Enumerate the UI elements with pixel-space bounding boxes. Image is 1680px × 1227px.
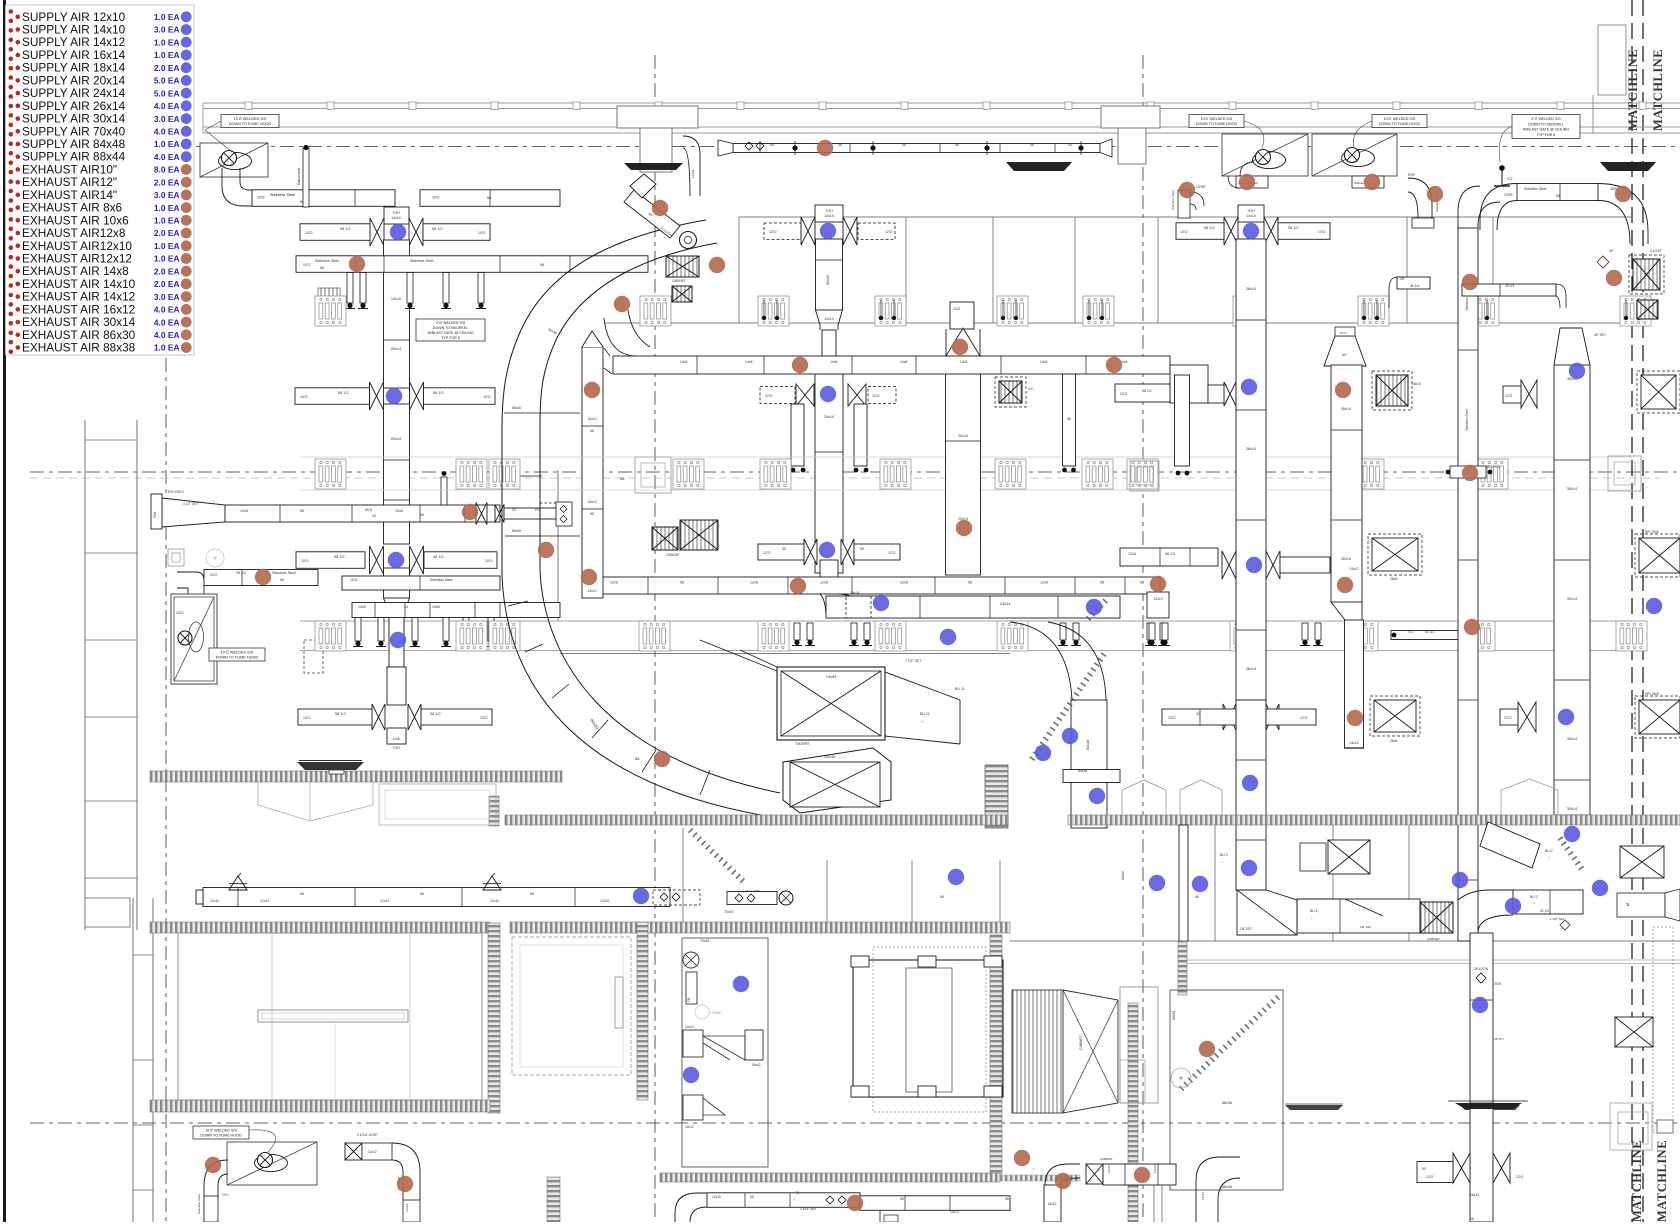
stub 84x48 bbox=[1063, 770, 1120, 783]
bottom center elbow duct bbox=[675, 1193, 707, 1222]
svg-text:Stainless Steel: Stainless Steel bbox=[1465, 409, 1469, 431]
svg-text:12'∅: 12'∅ bbox=[885, 230, 894, 234]
svg-text:1.0 EA: 1.0 EA bbox=[154, 241, 180, 251]
svg-text:88x38: 88x38 bbox=[1172, 1011, 1176, 1020]
svg-text:14x8: 14x8 bbox=[745, 360, 752, 364]
svg-text:50: 50 bbox=[1422, 1167, 1426, 1171]
fume hood box R1 bbox=[1222, 134, 1308, 176]
svg-text:20x14: 20x14 bbox=[958, 434, 968, 438]
svg-text:1.0 EA: 1.0 EA bbox=[154, 343, 180, 353]
svg-text:Stainless Steel: Stainless Steel bbox=[1524, 187, 1547, 191]
dashed box near BU bbox=[540, 503, 556, 519]
svg-text:4 1/2" SET: 4 1/2" SET bbox=[183, 502, 198, 506]
column2 body3 below run bbox=[815, 374, 843, 573]
svg-text:DOWN TO SNORKEL: DOWN TO SNORKEL bbox=[433, 326, 468, 330]
column1 stub right y232 bbox=[423, 224, 490, 241]
column2 side bowties y395 bbox=[796, 384, 805, 406]
svg-text:10'∅ WELDED S/S: 10'∅ WELDED S/S bbox=[205, 1128, 237, 1132]
column4 bowtie y717 bbox=[1223, 704, 1230, 730]
elbow right of room D bbox=[1196, 1157, 1240, 1222]
svg-text:2.0 EA: 2.0 EA bbox=[154, 177, 180, 187]
svg-text:3 1/2x2 1/2'MT: 3 1/2x2 1/2'MT bbox=[357, 1133, 378, 1137]
column markers at gridline bbox=[635, 457, 671, 493]
svg-text:Galvanized: Galvanized bbox=[297, 168, 301, 185]
svg-text:70x40: 70x40 bbox=[724, 910, 733, 914]
svg-text:58 1/2: 58 1/2 bbox=[1288, 226, 1299, 230]
svg-text:↑: ↑ bbox=[1032, 1166, 1034, 1171]
right xbox y1017 bbox=[1615, 1017, 1653, 1047]
dashed boxes on run y607 bbox=[846, 596, 871, 618]
run y897 long bbox=[203, 888, 670, 907]
left small room walls x1120 bbox=[1120, 987, 1158, 1103]
svg-text:Stainless Steel: Stainless Steel bbox=[270, 193, 295, 197]
run y548 right bbox=[1120, 548, 1218, 566]
label snorkel R3 bbox=[1512, 115, 1580, 139]
stub into col4 bbox=[1208, 385, 1226, 403]
elbow from fan bbox=[222, 168, 252, 206]
svg-text:4'∅: 4'∅ bbox=[1408, 630, 1413, 634]
svg-text:26 1/2'DN: 26 1/2'DN bbox=[1474, 967, 1489, 971]
run y610 bbox=[352, 603, 560, 618]
svg-text:35 1/4: 35 1/4 bbox=[1505, 284, 1514, 288]
svg-text:14x8: 14x8 bbox=[680, 360, 687, 364]
exhaust air count dots (brown) bbox=[349, 256, 365, 272]
svg-text:14x10: 14x10 bbox=[587, 417, 596, 421]
snorkel label box mid-left bbox=[416, 319, 485, 341]
svg-text:←: ← bbox=[1310, 915, 1314, 920]
col6 bowties y1168 bbox=[1453, 1153, 1462, 1183]
svg-text:MATCHLINE: MATCHLINE bbox=[1626, 49, 1640, 131]
column2 top TOH bbox=[815, 205, 843, 222]
left riser w/ elbow bbox=[1178, 190, 1190, 218]
svg-text:56: 56 bbox=[420, 513, 424, 517]
zone verticals upper bbox=[738, 217, 740, 323]
svg-text:Stainless Steel: Stainless Steel bbox=[315, 259, 339, 263]
small vert duct 1158 bbox=[1147, 592, 1169, 618]
svg-text:4.0 EA: 4.0 EA bbox=[154, 127, 180, 137]
svg-text:58 1/2: 58 1/2 bbox=[338, 391, 349, 395]
bench room A bbox=[258, 1010, 408, 1022]
hood bar 1 bbox=[624, 163, 683, 170]
svg-text:1.0 EA: 1.0 EA bbox=[154, 37, 180, 47]
column2 dashed stubs bbox=[764, 223, 801, 240]
legend box bbox=[6, 5, 195, 355]
svg-text:DOWN TO FUME HOOD: DOWN TO FUME HOOD bbox=[229, 122, 272, 126]
svg-text:↑: ↑ bbox=[793, 1197, 795, 1202]
svg-text:84x48: 84x48 bbox=[1086, 740, 1090, 750]
svg-text:CABNMT: CABNMT bbox=[1100, 1157, 1113, 1161]
left connector col (x~592) bbox=[582, 347, 603, 598]
supply air count dots (blue) bbox=[390, 224, 406, 240]
svg-text:58 1/2: 58 1/2 bbox=[1165, 552, 1175, 556]
column1 transition bbox=[384, 598, 410, 640]
svg-text:20x14: 20x14 bbox=[391, 437, 401, 441]
svg-text:CABINET: CABINET bbox=[1427, 937, 1440, 941]
svg-text:12'∅: 12'∅ bbox=[1505, 394, 1512, 398]
coil unit bbox=[1012, 990, 1063, 1113]
small flex near curve top bbox=[1088, 600, 1106, 619]
svg-text:42 1/2: 42 1/2 bbox=[1425, 630, 1434, 634]
zone vert x558 bbox=[557, 470, 559, 621]
svg-text:60 ↑: 60 ↑ bbox=[1342, 353, 1349, 357]
svg-text:4.0 EA: 4.0 EA bbox=[154, 305, 180, 315]
bottom duct right of col4 bbox=[1297, 899, 1420, 933]
svg-text:12x10: 12x10 bbox=[490, 899, 499, 903]
grille row y622 bbox=[315, 621, 346, 651]
fume hood top-left bbox=[200, 143, 268, 177]
svg-text:14x10: 14x10 bbox=[1246, 214, 1256, 218]
dropper x444 bbox=[441, 477, 447, 505]
svg-text:26x8: 26x8 bbox=[1390, 577, 1397, 581]
small circle bbox=[206, 549, 224, 567]
svg-text:16x12: 16x12 bbox=[1153, 1164, 1157, 1173]
run y585 long bbox=[585, 577, 1160, 594]
svg-text:58: 58 bbox=[320, 266, 324, 270]
big right elbow right bbox=[1598, 184, 1648, 245]
column1 body4 bbox=[387, 667, 406, 705]
svg-text:86x30: 86x30 bbox=[826, 275, 830, 285]
run y513 bbox=[225, 505, 500, 522]
page border left bbox=[3, 0, 6, 1222]
svg-text:10'∅: 10'∅ bbox=[350, 578, 359, 582]
svg-text:70x40: 70x40 bbox=[700, 939, 709, 943]
big right elbow left bbox=[1480, 184, 1517, 231]
svg-text:10'∅: 10'∅ bbox=[257, 196, 266, 200]
svg-text:4"∅ WELDED S/S: 4"∅ WELDED S/S bbox=[1531, 117, 1561, 121]
svg-text:45 1/2'DN: 45 1/2'DN bbox=[1486, 465, 1501, 469]
thin duct y148 bbox=[733, 144, 1100, 153]
droppers col4 bbox=[1149, 623, 1155, 640]
svg-text:12'∅: 12'∅ bbox=[888, 551, 897, 555]
svg-text:14'∅: 14'∅ bbox=[953, 307, 960, 311]
flex bottom-left room bbox=[690, 830, 746, 884]
equipment big pad bbox=[873, 947, 986, 1112]
svg-text:58: 58 bbox=[300, 892, 304, 896]
BU box left bbox=[556, 502, 572, 526]
zone line y217 bbox=[739, 216, 1632, 218]
svg-text:14x8: 14x8 bbox=[960, 360, 967, 364]
svg-text:24: 24 bbox=[372, 514, 376, 518]
svg-text:58: 58 bbox=[635, 756, 640, 761]
zone line y323 bbox=[604, 322, 1632, 324]
svg-text:Stainless Steel: Stainless Steel bbox=[197, 1194, 201, 1214]
svg-text:24: 24 bbox=[404, 605, 408, 609]
svg-text:12x10: 12x10 bbox=[712, 1195, 721, 1199]
svg-text:10'∅: 10'∅ bbox=[222, 1193, 229, 1197]
svg-text:DOWN TO FUME HOOD: DOWN TO FUME HOOD bbox=[216, 656, 259, 660]
svg-text:45°: 45° bbox=[1400, 277, 1406, 281]
column4 bowtie y231 bbox=[1224, 217, 1231, 245]
column1 stub left y232 bbox=[300, 224, 370, 241]
svg-text:48: 48 bbox=[1030, 143, 1034, 147]
svg-text:54: 54 bbox=[1068, 143, 1072, 147]
svg-text:50x42: 50x42 bbox=[752, 1063, 761, 1067]
svg-text:Stainless Steel: Stainless Steel bbox=[410, 259, 434, 263]
svg-text:14x12: 14x12 bbox=[405, 1203, 409, 1212]
column1 bowtie y396 bbox=[370, 382, 377, 410]
svg-text:58: 58 bbox=[280, 578, 284, 582]
svg-text:10'∅: 10'∅ bbox=[485, 559, 494, 563]
svg-text:1.0 EA: 1.0 EA bbox=[154, 50, 180, 60]
room D lower walls bbox=[1153, 1185, 1155, 1222]
svg-text:10'∅: 10'∅ bbox=[480, 716, 489, 720]
svg-text:→: → bbox=[920, 718, 925, 723]
column6 from top elbow bbox=[1458, 186, 1500, 230]
svg-text:58: 58 bbox=[1556, 194, 1560, 198]
column5 body bbox=[1331, 365, 1362, 602]
svg-text:68: 68 bbox=[530, 892, 534, 896]
svg-text:DOWN TO FUME HOOD: DOWN TO FUME HOOD bbox=[1379, 122, 1421, 126]
hatch boxes mid-left bbox=[318, 288, 340, 324]
svg-text:14x10: 14x10 bbox=[391, 297, 401, 301]
column1 body bbox=[384, 240, 410, 388]
svg-text:45°: 45° bbox=[1609, 249, 1615, 253]
svg-text:3.0 EA: 3.0 EA bbox=[154, 25, 180, 35]
svg-text:MATCHLINE: MATCHLINE bbox=[1630, 1140, 1644, 1222]
elbow center run bbox=[820, 594, 862, 618]
galvanized riser bbox=[303, 148, 309, 207]
svg-text:12x10: 12x10 bbox=[600, 899, 609, 903]
column2 bowtie y552 bbox=[804, 539, 811, 565]
svg-text:86x30: 86x30 bbox=[512, 529, 521, 533]
connector y635 bbox=[1391, 631, 1458, 640]
T column 1 bbox=[617, 106, 698, 128]
svg-text:68: 68 bbox=[1195, 895, 1199, 899]
svg-text:10'∅: 10'∅ bbox=[305, 231, 314, 235]
svg-text:30x14: 30x14 bbox=[1341, 407, 1351, 411]
svg-text:4.0 EA: 4.0 EA bbox=[154, 330, 180, 340]
svg-text:10'∅: 10'∅ bbox=[483, 395, 492, 399]
column2 neck bbox=[820, 560, 838, 578]
svg-text:1.0 EA: 1.0 EA bbox=[154, 12, 180, 22]
svg-text:10'∅: 10'∅ bbox=[1168, 716, 1177, 720]
bottom col4 funnel bbox=[1237, 890, 1297, 935]
svg-text:10'∅: 10'∅ bbox=[300, 395, 309, 399]
gridline vertical A bbox=[165, 358, 167, 1222]
xbox right of column3 bbox=[999, 381, 1022, 403]
gridline vertical D matchline bbox=[1631, 0, 1633, 1222]
svg-text:10'∅: 10'∅ bbox=[303, 263, 312, 267]
svg-text:10x8: 10x8 bbox=[395, 509, 403, 513]
zone double line y960 bbox=[1187, 959, 1680, 961]
column2 body bbox=[816, 239, 843, 310]
svg-text:↑: ↑ bbox=[212, 499, 215, 505]
right xbox y375 bbox=[1641, 375, 1676, 409]
svg-text:30x14: 30x14 bbox=[1567, 737, 1577, 741]
svg-text:14x10: 14x10 bbox=[824, 214, 834, 218]
cabinet boxes B bbox=[672, 286, 692, 302]
column7 transition top bbox=[1554, 328, 1590, 365]
svg-text:84x84: 84x84 bbox=[1121, 871, 1125, 880]
svg-text:8.0 EA: 8.0 EA bbox=[154, 165, 180, 175]
run y365 long bbox=[613, 356, 1170, 374]
svg-text:52 1/4: 52 1/4 bbox=[1540, 909, 1549, 913]
run y264 bbox=[296, 256, 648, 272]
zone verticals below band bbox=[1214, 825, 1216, 941]
svg-text:24x14: 24x14 bbox=[824, 415, 834, 419]
small right glyph y1120 bbox=[1657, 1120, 1673, 1133]
wall vert x494 bbox=[488, 923, 500, 1113]
svg-text:SPL 26x8: SPL 26x8 bbox=[1645, 530, 1659, 534]
svg-text:MATCHLINE: MATCHLINE bbox=[1651, 49, 1665, 131]
run jog x1170 bbox=[1170, 365, 1208, 403]
svg-text:Stainless Steel: Stainless Steel bbox=[430, 578, 453, 582]
svg-text:TOH: TOH bbox=[392, 746, 400, 750]
svg-text:10'∅: 10'∅ bbox=[210, 573, 219, 577]
svg-text:+70x40: +70x40 bbox=[710, 1011, 721, 1015]
svg-text:20x14: 20x14 bbox=[391, 347, 401, 351]
svg-text:12x8: 12x8 bbox=[1040, 581, 1048, 585]
left wall lower bbox=[132, 898, 134, 1222]
svg-text:1.0 EA: 1.0 EA bbox=[154, 254, 180, 264]
svg-text:102-1/2'MT: 102-1/2'MT bbox=[745, 889, 760, 893]
svg-text:14x8: 14x8 bbox=[900, 360, 907, 364]
droppers under run y264 bbox=[347, 273, 353, 304]
svg-text:W/BLAST GATE @ CEILING: W/BLAST GATE @ CEILING bbox=[1523, 128, 1569, 132]
xbox pair right of column5 bbox=[1372, 538, 1418, 571]
gridline vertical C bbox=[1142, 55, 1144, 1222]
top wall band bbox=[203, 102, 1680, 104]
svg-text:1.0 EA: 1.0 EA bbox=[154, 139, 180, 149]
svg-text:58: 58 bbox=[300, 509, 304, 513]
svg-text:2.0 EA: 2.0 EA bbox=[154, 266, 180, 276]
svg-text:3.0 EA: 3.0 EA bbox=[154, 114, 180, 124]
bottom label box bbox=[193, 1126, 249, 1139]
hood bar 2 bbox=[1006, 162, 1072, 171]
right dotted tall box bbox=[1653, 927, 1673, 1133]
svg-text:10'∅: 10'∅ bbox=[1120, 392, 1127, 396]
gridline horizontal 3 bbox=[30, 1122, 1680, 1124]
svg-text:1.0 EA: 1.0 EA bbox=[154, 216, 180, 226]
svg-text:14x12: 14x12 bbox=[1048, 1202, 1057, 1206]
svg-text:Stainless Steel: Stainless Steel bbox=[1171, 190, 1175, 210]
column1 bowtie y232 bbox=[370, 218, 377, 246]
svg-text:10x8: 10x8 bbox=[432, 605, 440, 609]
roof outline 1 bbox=[1122, 780, 1166, 815]
column3 chimney bbox=[950, 302, 974, 329]
svg-text:12'∅: 12'∅ bbox=[1426, 1175, 1433, 1179]
soffit band lines bbox=[300, 456, 1632, 458]
black dot pairs row296 bbox=[762, 316, 766, 320]
svg-text:58: 58 bbox=[680, 581, 684, 585]
duct column1 top TOH bbox=[384, 207, 409, 224]
svg-text:4"∅ WELDED S/S: 4"∅ WELDED S/S bbox=[436, 321, 466, 325]
slanted BU2 duct bbox=[1480, 822, 1540, 868]
svg-text:TYP FOR 8: TYP FOR 8 bbox=[441, 336, 460, 340]
wall band y922 left bbox=[150, 922, 490, 933]
svg-text:2'DN: 2'DN bbox=[1494, 982, 1502, 986]
svg-text:14x10: 14x10 bbox=[587, 500, 596, 504]
column5 body2 bbox=[1345, 620, 1364, 748]
svg-text:12'∅: 12'∅ bbox=[765, 394, 774, 398]
svg-text:58 1/2: 58 1/2 bbox=[340, 227, 351, 231]
svg-text:12'∅: 12'∅ bbox=[1504, 716, 1513, 720]
svg-text:4'∅: 4'∅ bbox=[1507, 177, 1512, 181]
svg-text:48: 48 bbox=[838, 143, 842, 147]
duct stainless run1 bbox=[252, 190, 395, 207]
svg-text:C/C: C/C bbox=[1028, 387, 1034, 391]
wall vert x553 low bbox=[547, 1177, 560, 1222]
right small boxes y893 bbox=[1617, 893, 1665, 917]
svg-text:BU 3: BU 3 bbox=[1220, 853, 1228, 857]
svg-text:W/BLAST GATE @ CEILING: W/BLAST GATE @ CEILING bbox=[427, 331, 473, 335]
room C tall bbox=[682, 938, 768, 1167]
column4 body2 bbox=[1236, 700, 1266, 890]
gridline horizontal 2 bbox=[30, 471, 1680, 473]
column5 transition bbox=[1331, 602, 1362, 620]
flex diagonal right of center bbox=[1030, 654, 1104, 762]
svg-text:58: 58 bbox=[540, 263, 544, 267]
svg-text:48: 48 bbox=[770, 143, 774, 147]
svg-text:58: 58 bbox=[620, 476, 625, 481]
svg-text:58 1/2: 58 1/2 bbox=[335, 712, 346, 716]
svg-text:TAKEHRT: TAKEHRT bbox=[795, 742, 810, 746]
equipment 74x54 bbox=[777, 667, 885, 740]
svg-text:48: 48 bbox=[902, 143, 906, 147]
svg-text:16x16: 16x16 bbox=[1412, 382, 1421, 386]
dashed box diamonds bbox=[653, 890, 700, 905]
wall vert x1183 bbox=[1178, 941, 1187, 995]
stub y393 left of col4 bbox=[1115, 384, 1170, 402]
svg-text:7 1/2" SET: 7 1/2" SET bbox=[905, 659, 921, 663]
svg-text:30x14: 30x14 bbox=[1567, 597, 1577, 601]
cabinet boxes A bbox=[666, 256, 699, 277]
column1 bowtie y717 bbox=[372, 704, 379, 730]
svg-text:12x8: 12x8 bbox=[1128, 552, 1136, 556]
wall band y1173 bbox=[660, 1173, 1000, 1182]
col6 flange y1106 bbox=[1455, 1103, 1522, 1109]
zone line y650 bbox=[300, 650, 1632, 652]
svg-text:14x8: 14x8 bbox=[830, 360, 837, 364]
svg-text:30: 30 bbox=[782, 547, 786, 551]
column2 side ducts bbox=[791, 404, 804, 466]
big curved duct 86x30 bbox=[502, 220, 778, 818]
svg-text:5.0 EA: 5.0 EA bbox=[154, 88, 180, 98]
svg-text:TOH: TOH bbox=[392, 211, 400, 215]
svg-text:68: 68 bbox=[590, 429, 594, 433]
svg-text:FB: FB bbox=[687, 998, 691, 1002]
svg-text:58 1/2: 58 1/2 bbox=[1204, 226, 1215, 230]
right funnel xbox y259 bbox=[1597, 256, 1609, 268]
svg-text:80 6: 80 6 bbox=[365, 508, 372, 512]
svg-text:14x12: 14x12 bbox=[1349, 567, 1358, 571]
svg-text:12'∅: 12'∅ bbox=[872, 394, 881, 398]
big fume hood left bbox=[171, 594, 217, 684]
svg-text:26x14: 26x14 bbox=[1246, 287, 1256, 291]
svg-text:14x10: 14x10 bbox=[391, 216, 401, 220]
right square w/ inner bbox=[1610, 1103, 1652, 1150]
top-right corner structure bbox=[1598, 25, 1626, 95]
funnel left-top of equipment bbox=[700, 640, 777, 671]
room C funnels bbox=[683, 1030, 703, 1057]
svg-text:3.0 EA: 3.0 EA bbox=[154, 190, 180, 200]
svg-text:62x48: 62x48 bbox=[825, 754, 837, 759]
svg-text:BU 11: BU 11 bbox=[920, 712, 930, 716]
svg-text:26x8: 26x8 bbox=[1390, 739, 1397, 743]
curve spokes left bbox=[504, 412, 580, 414]
elbow under T1 bbox=[683, 136, 700, 196]
label box welded s/s bbox=[221, 115, 279, 128]
svg-text:12x10: 12x10 bbox=[210, 899, 219, 903]
svg-text:68: 68 bbox=[590, 512, 594, 516]
svg-text:12x8: 12x8 bbox=[820, 581, 828, 585]
zone line y941 bbox=[1010, 940, 1680, 942]
right xboxes y538/700 bbox=[1639, 538, 1680, 573]
left wall column bbox=[84, 420, 86, 930]
bottom right elbow bbox=[1045, 1164, 1080, 1185]
svg-text:26x14: 26x14 bbox=[1246, 667, 1256, 671]
svg-text:10'∅ WELDED S/S: 10'∅ WELDED S/S bbox=[1201, 117, 1233, 121]
